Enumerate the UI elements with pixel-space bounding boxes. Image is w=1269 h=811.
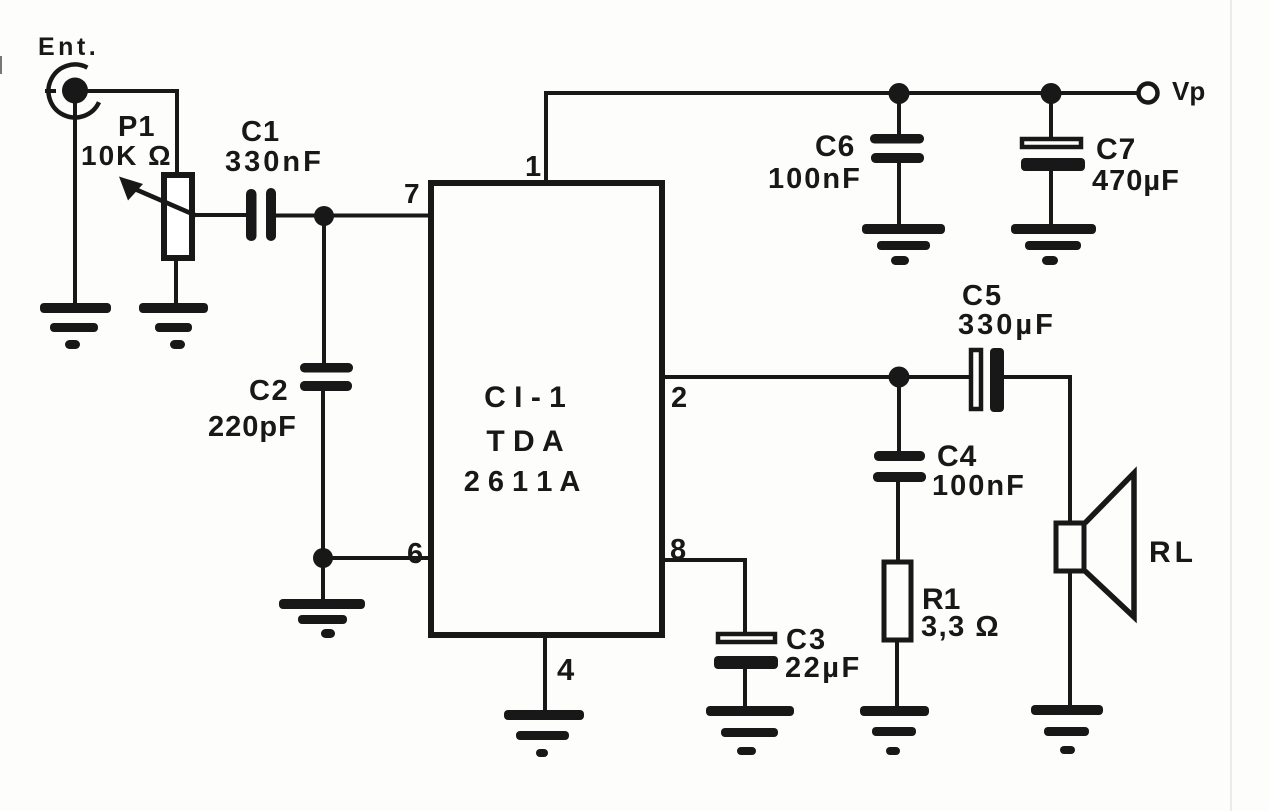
svg-text:3,3 Ω: 3,3 Ω <box>921 611 1000 643</box>
ground (under C3) <box>706 706 794 755</box>
capacitor C1 <box>246 188 276 241</box>
svg-text:100nF: 100nF <box>932 470 1026 502</box>
svg-text:RL: RL <box>1149 536 1197 569</box>
svg-text:P1: P1 <box>118 111 155 143</box>
scan fold artifact <box>1230 0 1232 811</box>
wire rail down to C7 <box>1049 93 1053 139</box>
svg-text:22µF: 22µF <box>785 652 862 684</box>
wire C6 to ground <box>897 162 901 226</box>
node junction pin 6 <box>313 548 333 568</box>
op-amp U1 / IC CI-1 TDA2611A box <box>431 183 662 635</box>
wire pin 6 <box>323 556 431 560</box>
wire Vp supply rail <box>544 91 1138 95</box>
svg-text:7: 7 <box>404 178 420 209</box>
svg-text:100nF: 100nF <box>768 163 862 195</box>
svg-text:1: 1 <box>525 151 541 183</box>
svg-text:C I - 1: C I - 1 <box>484 381 566 414</box>
svg-text:T D A: T D A <box>486 425 563 458</box>
ground (under pin 4) <box>504 710 584 757</box>
terminal Vp <box>1139 84 1158 103</box>
input connector Ent. <box>45 65 99 118</box>
svg-text:470µF: 470µF <box>1092 165 1180 197</box>
wire junction down to C4 <box>897 377 901 452</box>
wire P1 bottom to ground <box>174 258 178 306</box>
wire C7 to ground <box>1049 170 1053 226</box>
wire pin 8 to C3 <box>662 560 745 635</box>
wire C4 to R1 <box>896 481 900 562</box>
svg-text:Vp: Vp <box>1172 76 1205 106</box>
ground (under R1) <box>860 706 929 755</box>
wire pin 1 up to supply rail <box>544 91 548 183</box>
capacitor C5 (electrolytic) <box>971 348 1004 412</box>
wire speaker to ground <box>1068 571 1072 709</box>
node junction C6 on rail <box>889 83 910 104</box>
speaker RL <box>1056 473 1134 617</box>
svg-text:C1: C1 <box>241 116 280 148</box>
scan edge mark <box>0 56 2 74</box>
ground (under C7) <box>1011 224 1096 265</box>
capacitor C6 <box>870 134 924 163</box>
capacitor C4 <box>873 451 926 482</box>
node junction C7 on rail <box>1041 83 1062 104</box>
svg-text:C4: C4 <box>937 440 977 473</box>
svg-text:C5: C5 <box>962 280 1003 312</box>
wire junction down to C2 <box>322 216 326 364</box>
svg-text:4: 4 <box>557 652 575 687</box>
svg-text:2: 2 <box>671 382 687 414</box>
svg-text:C7: C7 <box>1096 133 1136 166</box>
wire R1 to ground <box>895 640 899 710</box>
svg-text:330nF: 330nF <box>225 146 324 178</box>
ground (under C2 / pin6 branch) <box>279 599 365 638</box>
node junction pin2 / C4 <box>889 367 910 388</box>
wire rail down to C6 <box>897 93 901 136</box>
wire C3 to ground <box>743 668 747 710</box>
wire pin 2 to C5 <box>662 375 970 379</box>
ground (under speaker) <box>1031 705 1103 754</box>
potentiometer P1 <box>119 175 196 258</box>
svg-text:C2: C2 <box>249 375 289 407</box>
svg-text:2 6 1 1 A: 2 6 1 1 A <box>464 466 581 498</box>
svg-text:220pF: 220pF <box>208 411 297 443</box>
capacitor C2 <box>300 363 353 391</box>
svg-text:330µF: 330µF <box>958 309 1056 341</box>
svg-text:C6: C6 <box>815 130 855 163</box>
wire C2 bottom to pin6 node and ground <box>321 390 325 602</box>
wire C1 to pin 7 <box>276 214 431 218</box>
resistor R1 <box>884 562 911 640</box>
svg-text:10K Ω: 10K Ω <box>81 140 173 171</box>
ground (under P1) <box>139 303 208 349</box>
wire from connector down to ground <box>73 100 77 306</box>
ground (under C6) <box>862 224 945 265</box>
wire from connector to P1 top <box>84 91 177 174</box>
wire P1 wiper to C1 <box>195 213 247 217</box>
ground (under Ent.) <box>40 303 111 349</box>
wire C5 to speaker <box>1004 377 1070 525</box>
node junction C1/C2/pin7 <box>314 206 334 226</box>
svg-text:6: 6 <box>407 538 423 570</box>
capacitor C3 (electrolytic) <box>714 634 778 669</box>
svg-text:Ent.: Ent. <box>38 33 99 61</box>
capacitor C7 (electrolytic) <box>1021 139 1085 171</box>
wire pin 4 to ground <box>543 635 547 713</box>
